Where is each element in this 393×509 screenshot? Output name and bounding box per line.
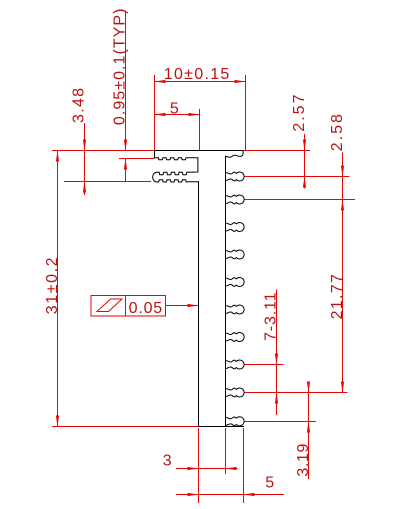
svg-text:3.19: 3.19 bbox=[295, 443, 312, 477]
svg-text:3.48: 3.48 bbox=[71, 87, 88, 123]
svg-text:5: 5 bbox=[265, 475, 275, 492]
svg-text:10±0.15: 10±0.15 bbox=[164, 66, 231, 83]
svg-text:2.57: 2.57 bbox=[291, 93, 308, 132]
svg-text:7-3.11: 7-3.11 bbox=[262, 291, 279, 341]
svg-text:21.77: 21.77 bbox=[329, 273, 346, 320]
svg-text:5: 5 bbox=[170, 100, 180, 117]
svg-text:3: 3 bbox=[163, 453, 173, 470]
svg-text:0.05: 0.05 bbox=[129, 300, 163, 317]
svg-text:31±0.2: 31±0.2 bbox=[44, 256, 61, 314]
svg-text:2.58: 2.58 bbox=[329, 112, 346, 151]
svg-text:0.95±0.1(TYP): 0.95±0.1(TYP) bbox=[111, 8, 128, 126]
